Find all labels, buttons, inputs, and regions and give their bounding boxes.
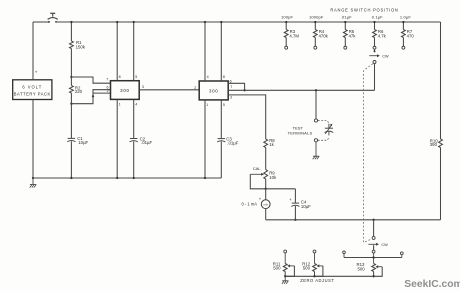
R12 wiper arm — [315, 264, 323, 276]
wire: battery to bus — [32, 22, 34, 80]
wire: U2 pin 8 to bus — [220, 21, 222, 81]
svg-text:CW: CW — [381, 243, 388, 247]
capacitor under test Cx — [325, 124, 334, 136]
range value labels — [281, 15, 411, 20]
svg-text:+: + — [35, 70, 38, 75]
SeekIC.com watermark — [404, 279, 460, 290]
CAL label — [253, 166, 262, 171]
svg-text:0.1µF: 0.1µF — [372, 15, 383, 20]
svg-text:2: 2 — [107, 89, 109, 93]
svg-text:1: 1 — [206, 103, 208, 107]
svg-text:470: 470 — [407, 34, 415, 39]
C4 + label — [289, 197, 292, 202]
R7 value label — [407, 29, 415, 38]
resistor R2 — [70, 77, 74, 104]
node: R2/C1 junction — [70, 103, 72, 105]
wire: junction to IC1 pin 7 — [71, 77, 110, 83]
wire: battery to ground bus — [32, 100, 34, 180]
resistor R8 — [264, 139, 268, 170]
svg-text:1.0µF: 1.0µF — [400, 15, 411, 20]
wire: U1 pin 1 to ground — [116, 99, 118, 179]
svg-text:220: 220 — [75, 89, 83, 94]
svg-text:500: 500 — [273, 266, 281, 271]
S1b wiper contact — [372, 220, 375, 240]
S1a wiper contact — [373, 49, 376, 63]
potentiometer R12 — [313, 250, 317, 277]
wire: S1b contact row — [344, 253, 402, 264]
R2 value label — [75, 85, 83, 94]
svg-text:CAL: CAL — [253, 166, 262, 171]
capacitor C1 — [67, 104, 75, 179]
svg-text:500: 500 — [358, 267, 366, 272]
wire: bottom bus — [266, 219, 441, 221]
svg-text:SeekIC.com: SeekIC.com — [404, 279, 460, 290]
svg-text:5: 5 — [223, 103, 225, 107]
svg-text:RANGE SWITCH POSITION: RANGE SWITCH POSITION — [330, 8, 398, 13]
resistor R10 — [439, 22, 443, 220]
ground (battery) — [30, 178, 37, 188]
resistor R4 — [313, 21, 317, 49]
R12 value label — [302, 261, 310, 270]
R3 value label — [289, 29, 299, 38]
node: R1/R2 junction — [70, 76, 72, 78]
meter range label — [242, 202, 258, 207]
wire: U1 pin 3 to U2 pin 2 — [139, 89, 199, 91]
svg-text:470k: 470k — [319, 34, 329, 39]
ground (R11) — [282, 276, 289, 284]
svg-text:5: 5 — [135, 75, 137, 79]
wire: meter to bottom bus — [265, 209, 267, 220]
dashed mechanical link S1a-S1b — [364, 64, 373, 243]
R11 wiper arm — [285, 264, 294, 276]
svg-text:7: 7 — [230, 85, 232, 89]
R10 value label — [430, 138, 438, 147]
svg-text:8: 8 — [223, 75, 225, 79]
R11 value label — [273, 261, 281, 270]
resistor R6 — [373, 21, 377, 49]
potentiometer R11 — [283, 250, 287, 277]
R9 value label — [269, 171, 277, 180]
resistor R3 — [284, 21, 288, 49]
node: R9 bottom junction — [265, 188, 267, 190]
svg-text:mA: mA — [263, 203, 268, 207]
resistor R1 — [70, 21, 74, 77]
svg-text:ZERO ADJUST: ZERO ADJUST — [300, 278, 334, 283]
S1a CW rotation arrow — [369, 54, 389, 58]
op-amp U1 (300) — [111, 81, 140, 100]
svg-text:300: 300 — [120, 88, 129, 93]
ground (test terminal) — [313, 142, 320, 159]
dashed lead TP2 to Cx — [318, 138, 329, 140]
potentiometer R9 (CAL) — [264, 170, 268, 189]
wire: R9 junction to C4 — [266, 188, 296, 190]
wire: ground bus — [33, 177, 221, 179]
R6 value label — [378, 29, 387, 38]
svg-text:BATTERY PACK: BATTERY PACK — [14, 91, 51, 96]
svg-text:.01µF: .01µF — [341, 15, 352, 20]
svg-text:300: 300 — [209, 88, 218, 93]
test terminal TP1 — [314, 90, 317, 122]
C1 value label — [77, 136, 88, 145]
RANGE SWITCH POSITION label — [330, 8, 398, 13]
svg-text:3: 3 — [142, 85, 144, 89]
node: pin6/pin7 junction — [243, 89, 245, 91]
R1 value label — [76, 40, 86, 49]
svg-text:10µF: 10µF — [78, 140, 88, 145]
wire: zero-adjust rail — [285, 275, 373, 277]
wire: U2 pin 3 to R8 — [228, 95, 266, 139]
svg-text:10µF: 10µF — [301, 204, 311, 209]
C2 value label — [140, 136, 153, 145]
wire: U1 pin 8 to bus — [116, 21, 118, 81]
test terminal TP2 — [314, 139, 317, 142]
U2 pin labels — [194, 75, 232, 107]
node: output/test terminal junction — [315, 89, 317, 91]
C3 value label — [226, 136, 238, 145]
R8 value label — [269, 138, 275, 147]
resistor R7 — [402, 21, 406, 49]
meter + label — [259, 197, 262, 202]
svg-text:1000pF: 1000pF — [309, 15, 324, 20]
svg-text:TERMINALS: TERMINALS — [288, 131, 313, 136]
TEST TERMINALS label — [288, 126, 313, 136]
svg-text:0 - 1 mA: 0 - 1 mA — [242, 202, 258, 207]
svg-text:.01µF: .01µF — [141, 140, 152, 145]
wire: U2 pin 7 output net — [228, 89, 374, 91]
battery + terminal label — [35, 70, 38, 75]
ZERO ADJUST label — [300, 278, 334, 283]
wire: R2 bottom to IC1 pins 6,2 — [71, 90, 110, 104]
svg-text:6 VOLT: 6 VOLT — [22, 85, 42, 90]
meter M1 0-1mA — [261, 189, 270, 209]
S1b moving contact — [372, 245, 375, 253]
op-amp U2 (300) — [199, 81, 228, 100]
svg-text:4: 4 — [207, 75, 209, 79]
node: S1b wiper junction — [372, 219, 374, 221]
svg-text:390: 390 — [430, 142, 438, 147]
R13 wiper arm — [372, 265, 382, 277]
R13 value label — [357, 262, 366, 271]
battery B1 box — [13, 80, 52, 100]
capacitor C4 — [291, 189, 299, 221]
wire: U2 pin 1 to ground — [204, 100, 206, 179]
svg-text:.01µF: .01µF — [227, 140, 238, 145]
svg-text:1: 1 — [119, 102, 121, 106]
svg-text:3: 3 — [230, 96, 232, 100]
capacitor C2 (U1 pin 4 to ground) — [130, 99, 138, 179]
switch S1 (push button) — [48, 13, 58, 23]
R4 value label — [319, 29, 329, 38]
wire: riser to S1a wiper — [374, 64, 376, 91]
svg-text:2: 2 — [194, 86, 196, 90]
svg-text:7: 7 — [106, 78, 108, 82]
wire: U2 pin 6 feedback loop — [228, 83, 244, 90]
svg-text:8: 8 — [119, 75, 121, 79]
R9 wiper arm — [250, 173, 265, 189]
resistor R5 — [343, 21, 347, 49]
svg-text:4: 4 — [135, 102, 137, 106]
potentiometer R13 — [372, 264, 376, 277]
wire: U1 pin 5 to bus — [133, 21, 135, 81]
capacitor C3 (U2 pin 5 to ground) — [217, 100, 225, 178]
svg-text:100pF: 100pF — [281, 15, 293, 20]
svg-text:500: 500 — [303, 266, 311, 271]
svg-text:CW: CW — [382, 54, 389, 58]
svg-text:47k: 47k — [349, 34, 357, 39]
R5 value label — [349, 29, 357, 38]
svg-text:4.7M: 4.7M — [289, 34, 299, 39]
wire: U2 pin 4 to bus — [204, 21, 206, 81]
svg-text:10k: 10k — [269, 175, 277, 180]
S1b right contact — [400, 252, 403, 258]
svg-text:4.7k: 4.7k — [378, 34, 387, 39]
dashed lead TP1 to Cx — [318, 121, 329, 123]
S1b CW rotation arrow — [368, 243, 388, 247]
wire: top supply bus — [33, 21, 441, 23]
U1 pin labels — [106, 75, 144, 107]
svg-text:150k: 150k — [76, 44, 86, 49]
S1b left contact — [343, 251, 346, 258]
C4 value label — [301, 200, 311, 209]
